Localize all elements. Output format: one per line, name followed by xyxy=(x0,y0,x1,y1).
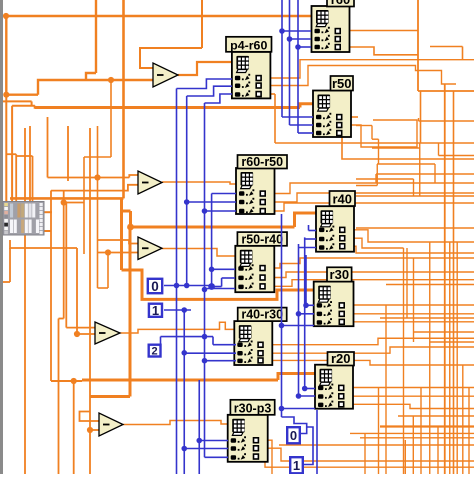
wire xyxy=(107,253,109,289)
blue to r60-r50 in1 xyxy=(212,193,236,195)
blue from constant 1 lower xyxy=(304,427,313,465)
blue wire bundle 1 xyxy=(281,0,283,117)
junction xyxy=(202,287,208,293)
subtract4 output into r40-r30 icon xyxy=(120,322,234,333)
wire xyxy=(372,138,379,140)
junction xyxy=(3,92,9,98)
wire xyxy=(63,191,65,319)
vertical wire xyxy=(429,242,431,474)
wire xyxy=(9,248,11,282)
wire xyxy=(356,195,474,197)
blue riser in3 net xyxy=(204,103,206,457)
r60-r50 out2 wire xyxy=(259,193,474,202)
r20 out2 wire xyxy=(350,395,474,397)
wire to subtract4 lower xyxy=(77,333,95,335)
label r60 xyxy=(327,0,354,7)
r60 out1 wire xyxy=(349,30,418,32)
blue to r50-r40 in3 xyxy=(205,288,236,290)
junction xyxy=(108,77,114,83)
subtract node subtract 2 xyxy=(138,171,162,194)
label r50-r40 xyxy=(237,232,287,246)
vertical wire xyxy=(385,305,387,474)
wire xyxy=(67,126,69,181)
wire xyxy=(84,156,111,158)
junction xyxy=(202,208,208,214)
r30-p3 out1 wire xyxy=(256,440,272,474)
r60 out3 wire xyxy=(349,47,418,55)
junction xyxy=(279,323,285,329)
wire xyxy=(372,147,420,149)
long vertical wire xyxy=(456,242,458,474)
svg-text:2: 2 xyxy=(152,346,158,358)
subVI r50-r40 body xyxy=(235,246,274,292)
blue to r50-r40 in1 xyxy=(212,268,235,270)
numeric constant 1 xyxy=(149,304,162,317)
r60-r50 out1 wire xyxy=(259,183,474,194)
blue to r60 in2 xyxy=(290,38,312,40)
wire xyxy=(360,437,474,439)
junction xyxy=(196,438,202,444)
wire xyxy=(279,444,474,446)
wire xyxy=(378,139,380,164)
r30-p3 out3 wire xyxy=(256,457,474,468)
wire xyxy=(356,185,377,187)
wire to subtract2 lower xyxy=(51,185,138,191)
blue to r50 in1 xyxy=(282,116,313,118)
r40-r30 out2 wire xyxy=(261,347,474,353)
blue wire bundle 2 xyxy=(289,0,291,125)
r50-r40 out1 wire xyxy=(261,258,474,268)
r20 out3 wire xyxy=(350,404,474,408)
junction xyxy=(181,350,187,356)
wire to subtract3 lower xyxy=(98,252,139,254)
structure edge (left) xyxy=(0,0,3,474)
thick wire elbow to subtract5 xyxy=(90,395,130,398)
wire jog xyxy=(86,73,96,80)
r40-r30 out3 wire xyxy=(261,360,474,365)
wire to subtract4 upper xyxy=(66,327,95,329)
blue to r30-p3 in3 xyxy=(205,456,229,458)
wire xyxy=(419,120,474,122)
vertical wire xyxy=(378,388,380,475)
subtract2 output into r60-r50 icon xyxy=(162,182,236,184)
wire into i/o icon xyxy=(5,95,7,202)
svg-text:r60: r60 xyxy=(331,0,351,7)
wire xyxy=(51,380,82,382)
subVI r50 body xyxy=(313,91,351,138)
blue from constant 0 xyxy=(164,285,212,287)
thick array wire xyxy=(35,106,300,109)
long wire right xyxy=(275,142,474,144)
svg-text:r50-r40: r50-r40 xyxy=(241,232,283,246)
blue riser xyxy=(308,225,310,231)
blue to r60-r50 in2 xyxy=(187,201,236,203)
vertical wire xyxy=(462,365,464,474)
wire xyxy=(47,117,49,178)
wire xyxy=(376,164,378,186)
junction xyxy=(279,28,285,34)
blue from constant 2 up xyxy=(160,337,162,345)
label r30-p3 xyxy=(230,400,274,415)
blue riser xyxy=(304,237,306,388)
long vertical wire xyxy=(417,0,419,91)
wire xyxy=(29,126,31,202)
wire stub from i/o icon xyxy=(44,230,51,232)
blue riser xyxy=(221,278,223,287)
wire to subtract5 upper xyxy=(80,412,100,422)
thick wire step into r50 icon xyxy=(300,104,313,108)
subtract5 output into r30-p3 icon xyxy=(123,421,228,425)
p4-r60 out1 wire xyxy=(260,60,474,78)
r40-r30 out1 wire xyxy=(261,338,474,344)
subVI r30-p3 body xyxy=(228,415,268,462)
label r40-r30 xyxy=(238,308,287,322)
wire xyxy=(110,80,112,157)
wire xyxy=(434,164,436,183)
wire xyxy=(6,153,16,155)
wire xyxy=(462,47,464,60)
blue wire bundle 3 xyxy=(297,0,299,133)
thick array wire into r30 icon xyxy=(122,270,314,299)
junction xyxy=(287,36,293,42)
blue to r30 in3 xyxy=(282,325,315,327)
blue riser in1 net xyxy=(176,89,178,475)
r30 out1 wire xyxy=(341,304,474,306)
wire from top xyxy=(201,0,203,48)
r50 out3 wire xyxy=(342,133,474,159)
long vertical wire xyxy=(24,128,26,474)
wire xyxy=(414,331,474,333)
junction xyxy=(174,283,180,289)
wire xyxy=(12,105,35,107)
wire xyxy=(65,203,67,328)
r40 out3 wire xyxy=(347,246,474,253)
blue from constant 1 xyxy=(164,309,191,311)
blue to r20 in1 xyxy=(305,388,315,390)
blue to r50 in2 xyxy=(290,124,314,126)
numeric constant 0 lower xyxy=(287,427,300,443)
numeric constant 0 xyxy=(148,279,162,293)
junction xyxy=(295,44,301,50)
blue to r50 in3 xyxy=(298,132,313,134)
wire from left xyxy=(10,197,124,200)
blue staircase from constant 0 lower xyxy=(282,417,307,434)
subtract node subtract 3 xyxy=(138,237,162,260)
wire xyxy=(350,432,474,434)
subVI p4-r60 body xyxy=(232,52,271,99)
blue to r60 in1 xyxy=(282,30,311,32)
blue to r40 in1 xyxy=(309,230,317,232)
blue to r40 in2 xyxy=(305,238,316,240)
blue riser xyxy=(281,214,283,417)
wire xyxy=(31,101,33,105)
wire to subtract3 upper xyxy=(98,240,139,244)
thick wire into r40 icon xyxy=(295,213,317,227)
subVI r20 body xyxy=(315,365,353,409)
wire from structure edge xyxy=(3,100,32,102)
vertical wire xyxy=(404,440,406,474)
subVI r30 body xyxy=(314,282,354,327)
junction xyxy=(181,307,187,313)
label r50 xyxy=(331,76,354,91)
junction xyxy=(181,446,187,452)
subVI r40-r30 body xyxy=(234,321,272,365)
junction xyxy=(105,249,111,255)
blue to r40-r30 in2 xyxy=(184,352,236,354)
label r40 xyxy=(330,191,356,206)
vertical wire xyxy=(58,319,60,475)
blue riser in1 net xyxy=(211,194,213,288)
long wire xyxy=(376,173,474,175)
blue wire right xyxy=(161,336,214,338)
wire xyxy=(419,143,421,196)
blue to p4-r60 in2 xyxy=(187,86,232,96)
wire stub xyxy=(2,281,10,283)
svg-text:r20: r20 xyxy=(331,351,351,366)
svg-text:r40: r40 xyxy=(332,192,352,207)
numeric constant 2 xyxy=(149,345,161,357)
wire xyxy=(260,93,275,95)
subVI r40 body xyxy=(316,206,354,252)
wire xyxy=(386,284,474,286)
wire xyxy=(16,155,32,157)
wire xyxy=(430,46,463,48)
svg-text:0: 0 xyxy=(290,428,297,443)
wire xyxy=(83,157,85,254)
wire xyxy=(356,178,414,180)
label p4-r60 xyxy=(226,37,272,52)
r30 out2 wire xyxy=(341,313,474,315)
svg-text:r30-p3: r30-p3 xyxy=(234,401,272,415)
label r60-r50 xyxy=(238,155,288,169)
blue to r60 in3 xyxy=(298,46,311,48)
wire: array into r60 icon xyxy=(6,15,311,17)
thick array wire xyxy=(120,198,123,270)
junction xyxy=(202,358,208,364)
long vertical wire xyxy=(449,242,451,474)
vertical wire xyxy=(412,416,414,474)
wire from p4-r60 out3 xyxy=(274,94,276,143)
r20 out1 wire xyxy=(350,387,474,389)
vertical wire xyxy=(437,427,439,475)
wire jog xyxy=(35,106,48,108)
wire xyxy=(398,415,474,417)
wire xyxy=(76,248,78,334)
junction xyxy=(94,174,100,180)
vertical wire xyxy=(413,258,415,342)
svg-text:r60-r50: r60-r50 xyxy=(241,155,283,169)
r40 out1 wire xyxy=(347,230,474,242)
blue to r40-r30 in3 xyxy=(205,360,237,362)
wire xyxy=(380,317,474,319)
blue jog xyxy=(212,286,222,288)
wire into i/o icon xyxy=(15,154,17,201)
wire to subtract1 upper input xyxy=(140,48,202,68)
thick array wire xyxy=(129,211,132,227)
wire from top xyxy=(95,0,97,73)
blue to r30-p3 in1 xyxy=(199,440,228,442)
blue to r50-r40 in2 xyxy=(222,277,235,279)
wire xyxy=(418,118,420,121)
blue to r20 in2 xyxy=(299,395,316,397)
i/o table icon xyxy=(3,202,44,236)
thick array wire xyxy=(131,226,295,229)
svg-text:1: 1 xyxy=(293,458,300,473)
subtract1 output into p4-r60 icon xyxy=(178,62,232,75)
wire xyxy=(6,93,38,95)
vertical wire xyxy=(420,388,422,475)
blue riser xyxy=(298,244,300,396)
r50-r40 out2 wire xyxy=(261,272,474,278)
wire xyxy=(418,90,474,92)
wire xyxy=(439,155,474,157)
wire xyxy=(356,125,372,127)
junction xyxy=(296,311,302,317)
blue to p4-r60 in1 xyxy=(177,79,233,89)
label r20 xyxy=(328,352,355,366)
wire xyxy=(98,287,109,289)
blue riser down xyxy=(183,310,185,474)
wire xyxy=(377,163,435,165)
wire xyxy=(420,91,422,143)
blue to r60-r50 in3 xyxy=(205,210,237,212)
wire xyxy=(5,16,7,95)
blue to r40-r30 in1 xyxy=(213,344,236,346)
wire to subtract1 lower input xyxy=(38,80,153,95)
vertical wire xyxy=(406,248,408,318)
wire into i/o icon xyxy=(32,156,34,202)
junction xyxy=(279,406,285,412)
wire to subtract5 lower xyxy=(90,429,99,431)
junction xyxy=(303,303,309,309)
svg-text:1: 1 xyxy=(152,303,159,318)
wire xyxy=(356,227,474,229)
junction xyxy=(184,283,190,289)
wire to subtract2 xyxy=(48,177,130,179)
wire xyxy=(430,341,474,343)
junction xyxy=(296,393,302,399)
wire stub from i/o icon xyxy=(44,211,52,213)
blue riser down xyxy=(316,410,318,474)
vertical wire xyxy=(468,388,470,475)
junction xyxy=(184,199,190,205)
wire into i/o icon xyxy=(11,106,13,202)
wire xyxy=(375,174,377,183)
long vertical wire xyxy=(453,91,455,474)
wire xyxy=(10,240,77,248)
r30-p3 out2 wire xyxy=(256,448,474,461)
thick wire branch xyxy=(122,210,131,213)
numeric constant 1 lower xyxy=(290,457,303,473)
r40 out2 wire xyxy=(347,238,404,248)
junction xyxy=(87,427,93,433)
thick array wire xyxy=(82,379,278,382)
blue to r40 in3 xyxy=(299,247,317,249)
junction xyxy=(61,199,67,205)
r50 out1 stub xyxy=(351,116,358,118)
junction xyxy=(302,386,308,392)
svg-text:r40-r30: r40-r30 xyxy=(241,308,283,322)
junction xyxy=(202,334,208,340)
blue riser in2 net xyxy=(186,96,188,286)
vertical wire xyxy=(364,433,366,474)
thick array wire branch down xyxy=(129,227,132,397)
subtract node subtract 5 xyxy=(99,413,123,436)
svg-text:r30: r30 xyxy=(330,267,350,282)
wire xyxy=(371,126,373,140)
subtract node subtract 4 xyxy=(95,322,120,344)
r50 out2 wire xyxy=(351,120,417,147)
svg-text:p4-r60: p4-r60 xyxy=(230,38,267,52)
subtract node subtract 1 xyxy=(153,63,178,87)
junction xyxy=(71,378,77,384)
blue to r30 in1 xyxy=(306,304,314,306)
junction xyxy=(3,13,9,19)
wire xyxy=(97,126,99,288)
r60-r50 out3 wire xyxy=(259,203,474,211)
wire xyxy=(50,191,52,382)
wire xyxy=(403,248,405,474)
wire jog xyxy=(59,318,64,320)
long vertical wire xyxy=(444,84,446,474)
blue to r30-p3 in2 xyxy=(184,448,228,450)
junction xyxy=(127,224,134,231)
junction xyxy=(208,283,215,290)
blue to r30 in2 xyxy=(299,313,315,315)
blue to p4-r60 in3 xyxy=(205,94,233,103)
junction xyxy=(209,267,215,273)
r50-r40 out3 wire xyxy=(261,280,474,287)
svg-text:r50: r50 xyxy=(332,76,352,91)
subVI r60-r50 body xyxy=(236,168,275,214)
blue riser xyxy=(198,380,200,474)
wire xyxy=(413,179,415,196)
p4-r60 out2 wire xyxy=(260,66,456,86)
junction xyxy=(74,331,80,337)
thick wire into r20 icon xyxy=(278,374,315,381)
blue riser xyxy=(212,337,214,345)
wire xyxy=(380,425,474,427)
wire xyxy=(438,143,440,156)
r30 out3 wire xyxy=(341,321,474,323)
long vertical wire xyxy=(73,381,75,474)
svg-text:0: 0 xyxy=(151,279,159,294)
blue to r20 in3 xyxy=(282,408,316,410)
blue riser xyxy=(305,255,307,305)
long vertical wire xyxy=(89,128,91,474)
long wire from top xyxy=(122,0,125,198)
subtract3 output into r50-r40 icon xyxy=(162,249,235,257)
label r30 xyxy=(327,267,352,281)
wire jog subtract2 upper xyxy=(129,175,138,178)
wire xyxy=(64,202,84,204)
subVI r60 body xyxy=(312,6,350,52)
